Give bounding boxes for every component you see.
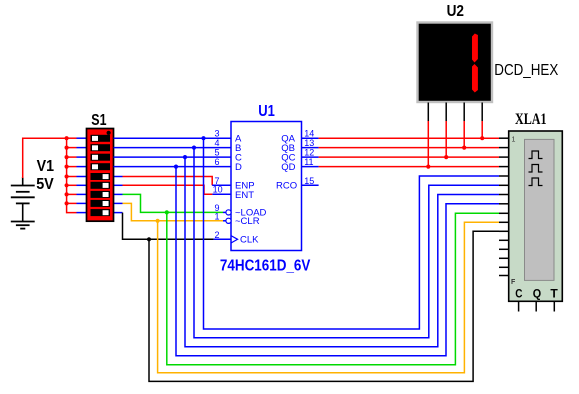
- U1 right pin stubs: [302, 138, 319, 185]
- wire ~LOAD (green): [123, 194, 224, 212]
- svg-text:U2: U2: [447, 3, 464, 20]
- XLA1 bottom pin stubs C Q T: [519, 301, 555, 311]
- svg-text:T: T: [550, 288, 557, 300]
- wire bus stubs red: [67, 138, 77, 203]
- U1 pin numbers: [213, 129, 315, 240]
- op-amp U1 box: [231, 122, 302, 251]
- svg-text:CLK: CLK: [240, 235, 259, 246]
- svg-text:10: 10: [213, 185, 223, 195]
- svg-text:12: 12: [304, 148, 314, 158]
- svg-text:5: 5: [215, 148, 220, 158]
- svg-text:C: C: [515, 288, 522, 300]
- wire QA red: [319, 137, 499, 139]
- wire ~CLR (orange): [123, 203, 224, 220]
- svg-text:V1: V1: [37, 158, 55, 175]
- wire QD red: [319, 166, 499, 168]
- wire U2 pin4 to QA (red): [481, 121, 483, 138]
- svg-text:1: 1: [215, 211, 220, 221]
- wire net A (blue) S1 to U1 pin A: [114, 137, 232, 139]
- svg-text:QD: QD: [281, 162, 295, 173]
- wire ENT (red): [123, 185, 213, 194]
- svg-text:11: 11: [304, 157, 313, 167]
- svg-text:15: 15: [304, 176, 314, 186]
- junction U2 pin2: [444, 155, 448, 159]
- junction node D: [174, 165, 178, 169]
- wire wrap net D (blue): [176, 167, 499, 356]
- junction node CLK: [147, 237, 151, 241]
- segment b: [472, 34, 478, 63]
- svg-text:74HC161D_6V: 74HC161D_6V: [220, 257, 311, 274]
- S1 left pin stubs (blue): [77, 138, 87, 212]
- svg-text:2: 2: [215, 230, 220, 240]
- U1 CLK triangle: [231, 236, 238, 243]
- pulse icon 2: [529, 165, 543, 173]
- junction node A: [201, 136, 205, 140]
- wire wrap net LOAD (green): [167, 212, 499, 364]
- svg-text:6: 6: [215, 157, 220, 167]
- U1 left pin stubs: [212, 185, 231, 239]
- wire U2 pin3 to QB (red): [463, 121, 465, 148]
- wire QB red: [319, 147, 499, 149]
- logic analyzer XLA1: [509, 131, 563, 301]
- U1 ~CLR bubble: [226, 218, 231, 223]
- S1 right pin stubs (blue): [114, 177, 123, 213]
- wire wrap net CLK (black): [149, 231, 499, 381]
- svg-text:5V: 5V: [36, 176, 54, 193]
- segment c: [472, 64, 478, 93]
- wire wrap net CLR (orange): [158, 221, 499, 373]
- wire net D: [114, 166, 232, 168]
- svg-text:RCO: RCO: [276, 181, 297, 192]
- wire battery to bus (red): [23, 138, 67, 178]
- switch S1: [87, 129, 114, 222]
- svg-text:XLA1: XLA1: [515, 111, 547, 128]
- junction U2 pin4: [480, 136, 484, 140]
- svg-text:DCD_HEX: DCD_HEX: [494, 62, 558, 79]
- svg-text:ENT: ENT: [235, 190, 254, 201]
- wire CLK (black): [123, 213, 214, 240]
- display U2: [418, 23, 493, 103]
- junction dots on bus: [65, 136, 69, 205]
- U1 pin names: [235, 133, 297, 245]
- junction node C: [183, 155, 187, 159]
- wire wrap net B (blue): [194, 148, 499, 338]
- junction node CLR: [156, 219, 160, 223]
- wire net C: [114, 156, 232, 158]
- svg-text:Q: Q: [533, 288, 541, 300]
- junction U2 pin3: [462, 146, 466, 150]
- wire U2 pin2 to QC (red): [445, 121, 447, 157]
- svg-text:D: D: [235, 162, 242, 173]
- wire net B: [114, 147, 232, 149]
- svg-text:1: 1: [512, 137, 516, 144]
- wire ENP (red): [123, 177, 213, 186]
- svg-text:~CLR: ~CLR: [235, 216, 260, 227]
- junction node B: [192, 146, 196, 150]
- pulse icon 3: [529, 178, 543, 186]
- wire red bus vertical: [67, 138, 77, 212]
- battery V1: [11, 177, 35, 222]
- svg-text:13: 13: [304, 138, 314, 148]
- svg-text:S1: S1: [91, 112, 107, 129]
- ground: [11, 222, 35, 229]
- svg-text:F: F: [511, 279, 516, 286]
- XLA1 left pin stubs (black): [499, 138, 509, 275]
- junction U2 pin1: [426, 165, 430, 169]
- pulse icon 1: [529, 151, 543, 159]
- wire U2 pin1 to QD (red): [427, 121, 429, 167]
- U2 pin stubs black: [428, 103, 482, 122]
- wire wrap net C (blue): [185, 157, 499, 347]
- junction node LOAD: [165, 210, 169, 214]
- wire wrap net A (blue): [204, 138, 500, 329]
- svg-text:U1: U1: [258, 103, 275, 120]
- U1 ~LOAD bubble: [226, 210, 231, 215]
- wire QC red: [319, 156, 499, 158]
- svg-text:4: 4: [215, 138, 220, 148]
